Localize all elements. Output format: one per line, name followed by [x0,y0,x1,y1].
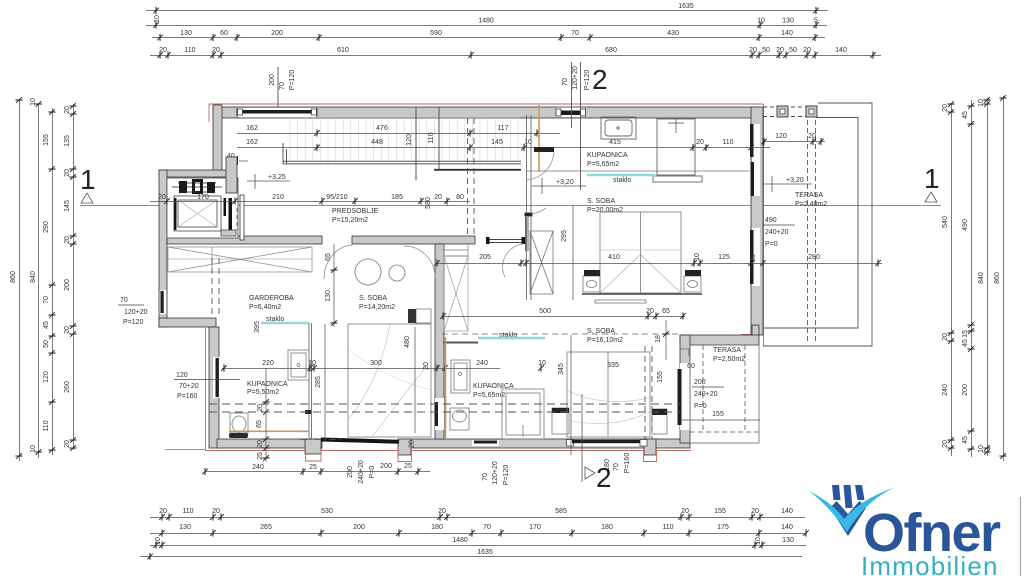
svg-text:20: 20 [409,440,416,448]
svg-text:60: 60 [220,30,228,37]
svg-text:125: 125 [718,254,730,261]
svg-text:45: 45 [962,111,969,119]
svg-text:120: 120 [176,372,188,379]
svg-text:585: 585 [555,508,567,515]
svg-text:130: 130 [180,30,192,37]
svg-text:KUPAONICA: KUPAONICA [247,381,288,388]
svg-text:15: 15 [962,330,969,338]
svg-text:P=160: P=160 [624,453,631,474]
svg-text:P=160: P=160 [177,393,198,400]
svg-text:130: 130 [782,537,794,544]
svg-text:20: 20 [159,47,167,54]
svg-text:+3,20: +3,20 [786,177,804,184]
svg-text:1635: 1635 [678,3,694,10]
svg-text:120+20: 120+20 [572,66,579,90]
svg-text:2: 2 [596,462,612,493]
svg-text:240: 240 [476,360,488,367]
svg-text:P=120: P=120 [584,70,591,91]
svg-text:Immobilien: Immobilien [861,551,999,576]
svg-text:180: 180 [431,524,443,531]
svg-text:65: 65 [325,253,332,261]
svg-text:50: 50 [762,47,770,54]
svg-text:20: 20 [942,104,949,112]
svg-text:+3,25: +3,25 [268,174,286,181]
svg-text:+3,20: +3,20 [556,179,574,186]
svg-text:P=120: P=120 [503,465,510,486]
svg-text:P=0: P=0 [765,241,778,248]
svg-text:200: 200 [694,379,706,386]
svg-text:20: 20 [423,362,430,370]
svg-text:240+20: 240+20 [358,460,365,484]
svg-text:155: 155 [43,134,50,146]
svg-text:P=5,50m2: P=5,50m2 [247,389,279,396]
svg-text:70: 70 [279,82,286,90]
svg-text:155: 155 [714,508,726,515]
svg-text:70: 70 [613,463,620,471]
svg-text:P=15,20m2: P=15,20m2 [332,217,368,224]
svg-text:10: 10 [154,15,161,23]
svg-text:240: 240 [252,464,264,471]
svg-text:20: 20 [803,47,811,54]
svg-text:20: 20 [257,440,264,448]
svg-text:170: 170 [197,194,209,201]
svg-text:300: 300 [370,360,382,367]
svg-text:290: 290 [43,221,50,233]
svg-text:840: 840 [30,271,37,283]
svg-text:70+20: 70+20 [179,383,199,390]
svg-text:200: 200 [353,524,365,531]
svg-text:S. SOBA: S. SOBA [587,328,615,335]
svg-text:65: 65 [662,308,670,315]
svg-text:20: 20 [64,169,71,177]
svg-text:110: 110 [184,47,195,54]
svg-text:20: 20 [434,194,442,201]
svg-text:P=120: P=120 [123,319,144,326]
svg-text:50: 50 [789,47,797,54]
svg-text:20: 20 [212,47,220,54]
svg-text:840: 840 [978,272,985,284]
svg-text:P=2,40m2: P=2,40m2 [795,201,827,208]
svg-text:162: 162 [246,139,258,146]
svg-text:5: 5 [814,18,818,25]
svg-text:1: 1 [924,163,940,194]
svg-text:200: 200 [380,463,392,470]
svg-text:200: 200 [64,279,71,291]
svg-text:18: 18 [655,335,662,343]
svg-text:120: 120 [775,133,787,140]
svg-text:145: 145 [491,139,503,146]
svg-text:240+20: 240+20 [694,391,718,398]
svg-text:110: 110 [428,132,435,143]
svg-text:20: 20 [942,333,949,341]
svg-text:410: 410 [608,254,620,261]
svg-text:20: 20 [158,194,166,201]
svg-text:335: 335 [607,362,619,369]
svg-text:P=16,10m2: P=16,10m2 [587,337,623,344]
svg-text:20: 20 [212,508,220,515]
svg-text:70: 70 [120,297,128,304]
svg-text:130: 130 [179,524,191,531]
svg-text:10: 10 [755,537,762,545]
svg-text:TERASA: TERASA [713,347,741,354]
svg-text:220: 220 [262,360,274,367]
svg-text:70: 70 [482,473,489,481]
svg-text:10: 10 [30,445,37,453]
svg-text:GARDEROBA: GARDEROBA [249,295,294,302]
svg-text:540: 540 [942,216,949,228]
svg-text:10: 10 [538,360,546,367]
svg-text:140: 140 [781,508,793,515]
svg-text:260: 260 [64,381,71,393]
svg-text:95/210: 95/210 [326,194,348,201]
svg-text:500: 500 [539,308,551,315]
svg-text:20: 20 [808,133,816,140]
svg-text:P=6,40m2: P=6,40m2 [249,304,281,311]
svg-text:20: 20 [681,508,689,515]
svg-text:285: 285 [315,376,322,388]
svg-text:430: 430 [667,30,679,37]
svg-text:610: 610 [337,47,349,54]
svg-text:120: 120 [406,134,413,146]
svg-text:120+20: 120+20 [124,309,148,316]
svg-text:200: 200 [347,466,354,478]
svg-text:P=14,20m2: P=14,20m2 [359,304,395,311]
svg-text:45: 45 [43,321,50,329]
svg-text:P=20,00m2: P=20,00m2 [587,207,623,214]
svg-text:20: 20 [257,404,264,412]
svg-text:120+20: 120+20 [492,461,499,485]
svg-text:110: 110 [722,139,733,146]
svg-text:240: 240 [942,384,949,396]
svg-text:50: 50 [43,340,50,348]
svg-text:45: 45 [962,339,969,347]
svg-text:240+20: 240+20 [765,229,789,236]
svg-text:395: 395 [254,321,261,333]
svg-text:70: 70 [571,30,579,37]
svg-text:415: 415 [609,139,621,146]
svg-text:155: 155 [657,371,664,383]
svg-text:20: 20 [749,47,757,54]
svg-text:P=0: P=0 [369,466,376,479]
svg-text:145: 145 [64,200,71,212]
svg-text:110: 110 [662,524,673,531]
svg-text:210: 210 [272,194,284,201]
svg-text:staklo: staklo [613,177,631,184]
svg-text:20: 20 [696,139,704,146]
svg-text:140: 140 [781,524,793,531]
svg-text:162: 162 [246,125,258,132]
svg-text:205: 205 [479,254,491,261]
svg-text:530: 530 [321,508,333,515]
svg-text:490: 490 [962,219,969,231]
svg-text:117: 117 [497,125,508,132]
svg-text:265: 265 [260,524,272,531]
svg-text:110: 110 [182,508,193,515]
svg-text:70: 70 [483,524,491,531]
svg-text:10: 10 [978,99,985,107]
svg-text:70: 70 [43,296,50,304]
svg-text:KUPAONICA: KUPAONICA [587,152,628,159]
svg-text:200: 200 [962,384,969,396]
svg-text:20: 20 [64,326,71,334]
svg-text:280: 280 [808,254,820,261]
svg-text:130: 130 [325,290,332,302]
svg-text:S. SOBA: S. SOBA [587,198,615,205]
svg-text:25: 25 [404,463,412,470]
svg-text:130: 130 [782,18,794,25]
svg-text:20: 20 [942,440,949,448]
svg-text:1480: 1480 [452,537,468,544]
svg-text:10: 10 [757,18,765,25]
svg-text:60: 60 [687,363,695,370]
svg-text:10: 10 [978,445,985,453]
svg-text:448: 448 [371,139,383,146]
svg-text:P=2,50m2: P=2,50m2 [713,356,745,363]
svg-text:590: 590 [430,30,442,37]
svg-text:TERASA: TERASA [795,192,823,199]
svg-text:200: 200 [271,30,283,37]
svg-text:20: 20 [159,508,167,515]
svg-text:20: 20 [64,440,71,448]
svg-text:S. SOBA: S. SOBA [359,295,387,302]
svg-text:480: 480 [404,336,411,348]
svg-text:10: 10 [30,98,37,106]
svg-text:175: 175 [717,524,729,531]
svg-text:2: 2 [592,64,608,95]
svg-text:P=5,65m2: P=5,65m2 [587,161,619,168]
svg-text:110: 110 [43,420,50,431]
svg-text:65: 65 [256,420,263,428]
svg-text:1635: 1635 [477,549,493,556]
svg-text:580: 580 [425,197,432,209]
svg-text:200: 200 [269,74,276,86]
svg-text:25: 25 [309,464,317,471]
svg-text:345: 345 [558,363,565,375]
svg-text:135: 135 [64,135,71,147]
svg-text:140: 140 [835,47,847,54]
svg-text:1: 1 [80,164,96,195]
svg-text:80: 80 [456,194,464,201]
svg-text:P=0: P=0 [694,403,707,410]
svg-text:20: 20 [751,508,759,515]
svg-text:P=5,65m2: P=5,65m2 [473,392,505,399]
svg-text:20: 20 [64,236,71,244]
svg-text:140: 140 [781,30,793,37]
svg-text:476: 476 [376,125,388,132]
svg-text:25: 25 [257,452,264,460]
svg-text:10: 10 [155,537,162,545]
svg-text:155: 155 [712,411,724,418]
svg-text:70: 70 [562,78,569,86]
svg-text:1480: 1480 [478,18,494,25]
svg-text:120: 120 [43,371,50,383]
svg-text:45: 45 [962,436,969,444]
svg-text:680: 680 [605,47,617,54]
svg-text:860: 860 [994,272,1001,284]
svg-text:20: 20 [776,47,784,54]
svg-text:20: 20 [438,508,446,515]
svg-text:185: 185 [391,194,403,201]
svg-text:295: 295 [561,230,568,242]
svg-text:860: 860 [10,271,17,283]
svg-text:PREDSOBLJE: PREDSOBLJE [332,208,379,215]
svg-text:20: 20 [64,106,71,114]
svg-text:490: 490 [765,217,777,224]
svg-text:180: 180 [601,524,613,531]
svg-text:170: 170 [529,524,541,531]
svg-text:P=120: P=120 [289,70,296,91]
